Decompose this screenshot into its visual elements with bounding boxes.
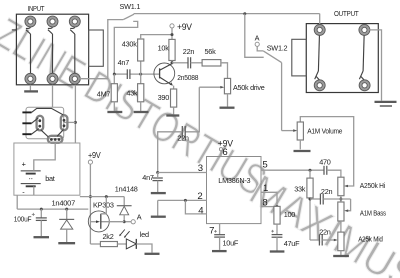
svg-text:10uF: 10uF (223, 238, 239, 247)
svg-text:A1M Bass: A1M Bass (360, 208, 386, 217)
svg-text:33k: 33k (294, 185, 306, 194)
svg-text:430k: 430k (122, 39, 137, 48)
svg-text:43k: 43k (126, 89, 138, 98)
svg-text:KP303: KP303 (93, 200, 114, 209)
svg-text:A25k Mid: A25k Mid (358, 235, 383, 244)
svg-text:6: 6 (222, 147, 227, 158)
svg-text:100: 100 (284, 210, 296, 219)
svg-text:A50k drive: A50k drive (233, 83, 265, 92)
svg-text:SW1.2: SW1.2 (267, 44, 288, 53)
svg-text:4n7: 4n7 (118, 58, 130, 67)
svg-text:A: A (137, 213, 142, 222)
svg-text:bat: bat (45, 174, 55, 183)
svg-text:5: 5 (262, 159, 267, 170)
svg-text:22n: 22n (177, 133, 189, 142)
svg-text:2k2: 2k2 (103, 232, 114, 241)
svg-text:7: 7 (209, 225, 214, 236)
svg-text:4n7: 4n7 (142, 173, 154, 182)
svg-text:+9V: +9V (177, 22, 193, 33)
svg-text:1n4148: 1n4148 (115, 184, 138, 193)
svg-text:390: 390 (158, 93, 170, 102)
svg-text:22n: 22n (183, 47, 195, 56)
svg-text:A1M Volume: A1M Volume (307, 127, 342, 136)
svg-text:2n5088: 2n5088 (177, 73, 198, 82)
svg-text:led: led (140, 230, 149, 239)
svg-text:10k: 10k (158, 44, 170, 53)
svg-text:56k: 56k (205, 47, 217, 56)
svg-text:OUTPUT: OUTPUT (334, 9, 359, 18)
svg-text:470: 470 (319, 157, 331, 166)
svg-text:47uF: 47uF (284, 239, 300, 248)
svg-text:A250k Hi: A250k Hi (360, 181, 386, 190)
svg-text:1n4007: 1n4007 (52, 198, 76, 207)
svg-text:LM386N-3: LM386N-3 (218, 176, 250, 185)
svg-text:4M7: 4M7 (97, 89, 111, 98)
svg-text:SW1.1: SW1.1 (120, 2, 141, 11)
svg-text:+: + (22, 160, 26, 169)
svg-text:INPUT: INPUT (28, 4, 45, 13)
svg-text:100uF: 100uF (14, 214, 32, 223)
svg-text:A: A (255, 33, 260, 42)
svg-text:+9V: +9V (88, 150, 101, 160)
svg-text:22n: 22n (319, 228, 331, 237)
